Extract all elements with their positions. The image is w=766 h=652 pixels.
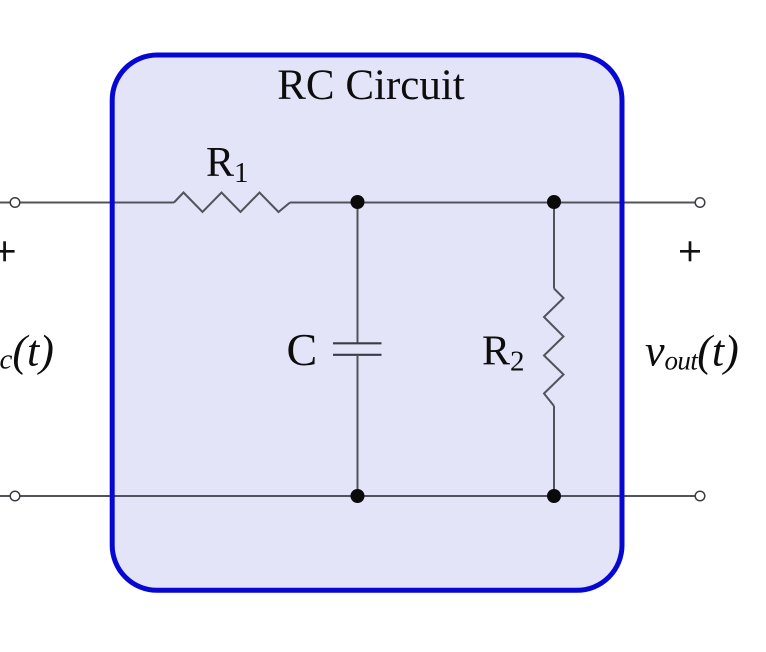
RC Circuit box border [112, 55, 622, 590]
wire top middle [290, 202, 700, 204]
capacitor C [333, 343, 382, 355]
wire capacitor bottom lead [357, 355, 359, 496]
terminal input top [10, 198, 20, 208]
wire capacitor top lead [357, 203, 359, 344]
node junction top-R2 [547, 195, 561, 209]
resistor R2 [544, 289, 564, 407]
terminal output top [695, 198, 705, 208]
plus sign input [0, 241, 15, 261]
terminal output bottom [695, 491, 705, 501]
node junction top-capacitor [351, 195, 365, 209]
wire R2 bottom lead [553, 406, 555, 496]
wire bottom [0, 495, 700, 497]
terminal input bottom [10, 491, 20, 501]
svg-text:vout(t): vout(t) [645, 327, 739, 376]
node junction bottom-capacitor [351, 489, 365, 503]
node junction bottom-R2 [547, 489, 561, 503]
svg-text:RC Circuit: RC Circuit [277, 62, 465, 109]
wire R2 top lead [553, 203, 555, 289]
RC Circuit enclosure box [112, 55, 622, 590]
plus sign output [680, 241, 700, 261]
svg-text:vc(t): vc(t) [0, 327, 54, 376]
resistor R1 [174, 193, 290, 213]
node Vin top wire [0, 202, 174, 204]
svg-text:C: C [287, 324, 318, 375]
